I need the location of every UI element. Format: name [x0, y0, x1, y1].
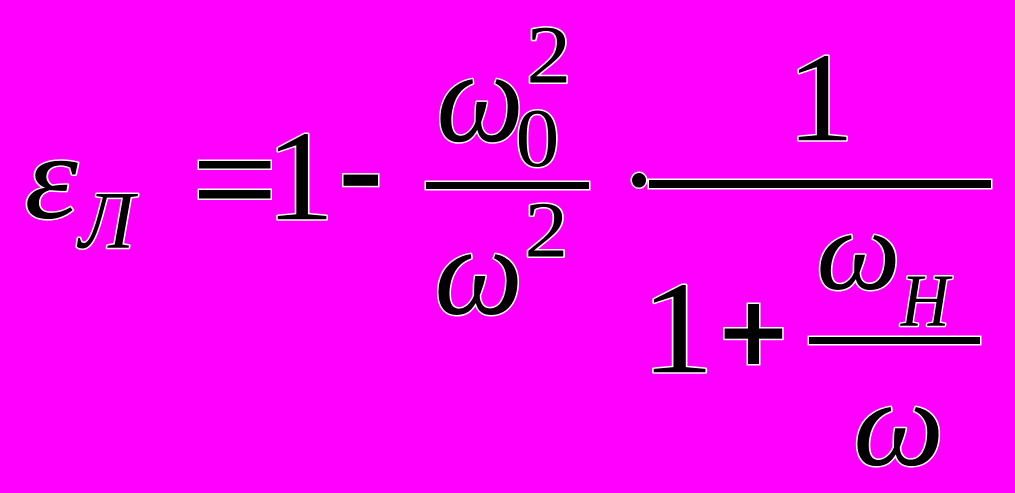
plus sign (cross of two strokes with outer halo) — [723, 327, 784, 340]
svg-text:ω: ω — [436, 24, 524, 170]
svg-text:2: 2 — [526, 9, 571, 101]
svg-text:Л: Л — [76, 175, 138, 266]
svg-text:ω: ω — [816, 188, 900, 315]
inner fraction bar — [808, 336, 982, 346]
plus sign vertical stroke — [748, 304, 759, 364]
svg-text:ε: ε — [24, 110, 78, 245]
svg-text:0: 0 — [516, 92, 560, 184]
svg-text:1: 1 — [787, 28, 855, 169]
second fraction bar — [648, 179, 993, 190]
svg-text:ω: ω — [853, 355, 944, 492]
plus sign horizontal stroke — [725, 329, 783, 339]
svg-text:2: 2 — [525, 187, 569, 275]
equals sign top bar — [198, 160, 273, 171]
svg-text:Н: Н — [900, 259, 953, 342]
svg-text:1: 1 — [641, 255, 714, 402]
multiplication dot — [631, 172, 648, 190]
equals sign bottom bar — [198, 189, 273, 201]
svg-text:1: 1 — [266, 104, 335, 247]
first fraction bar — [425, 181, 591, 191]
svg-text:ω: ω — [434, 201, 523, 342]
minus sign — [342, 173, 380, 187]
